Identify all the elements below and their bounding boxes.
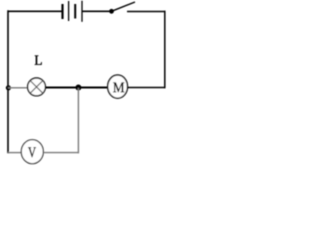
wire junction down to voltmeter (gray) (77, 88, 79, 153)
wire left vertical to lamp (gray) (8, 87, 28, 89)
wire switch contact to top-right corner (127, 11, 166, 13)
lamp L (28, 78, 46, 96)
switch S1 blade (open) (112, 2, 136, 11)
wire voltmeter to junction branch (gray) (43, 152, 79, 154)
wire right vertical (164, 11, 166, 89)
battery B1 (63, 1, 83, 22)
wire left vertical to voltmeter (gray) (8, 152, 21, 154)
switch S1 pivot dot (109, 9, 114, 14)
node junction on left vertical (6, 85, 11, 90)
wire junction to motor (79, 87, 109, 89)
wire left vertical (7, 10, 9, 153)
label L (35, 56, 42, 65)
node junction dot (75, 85, 81, 91)
wire top-left horizontal (8, 10, 62, 12)
voltmeter V (21, 140, 43, 164)
wire motor to right vertical (128, 87, 166, 89)
motor M (108, 75, 128, 98)
wire battery to switch (82, 10, 112, 12)
wire lamp to junction (45, 87, 78, 89)
